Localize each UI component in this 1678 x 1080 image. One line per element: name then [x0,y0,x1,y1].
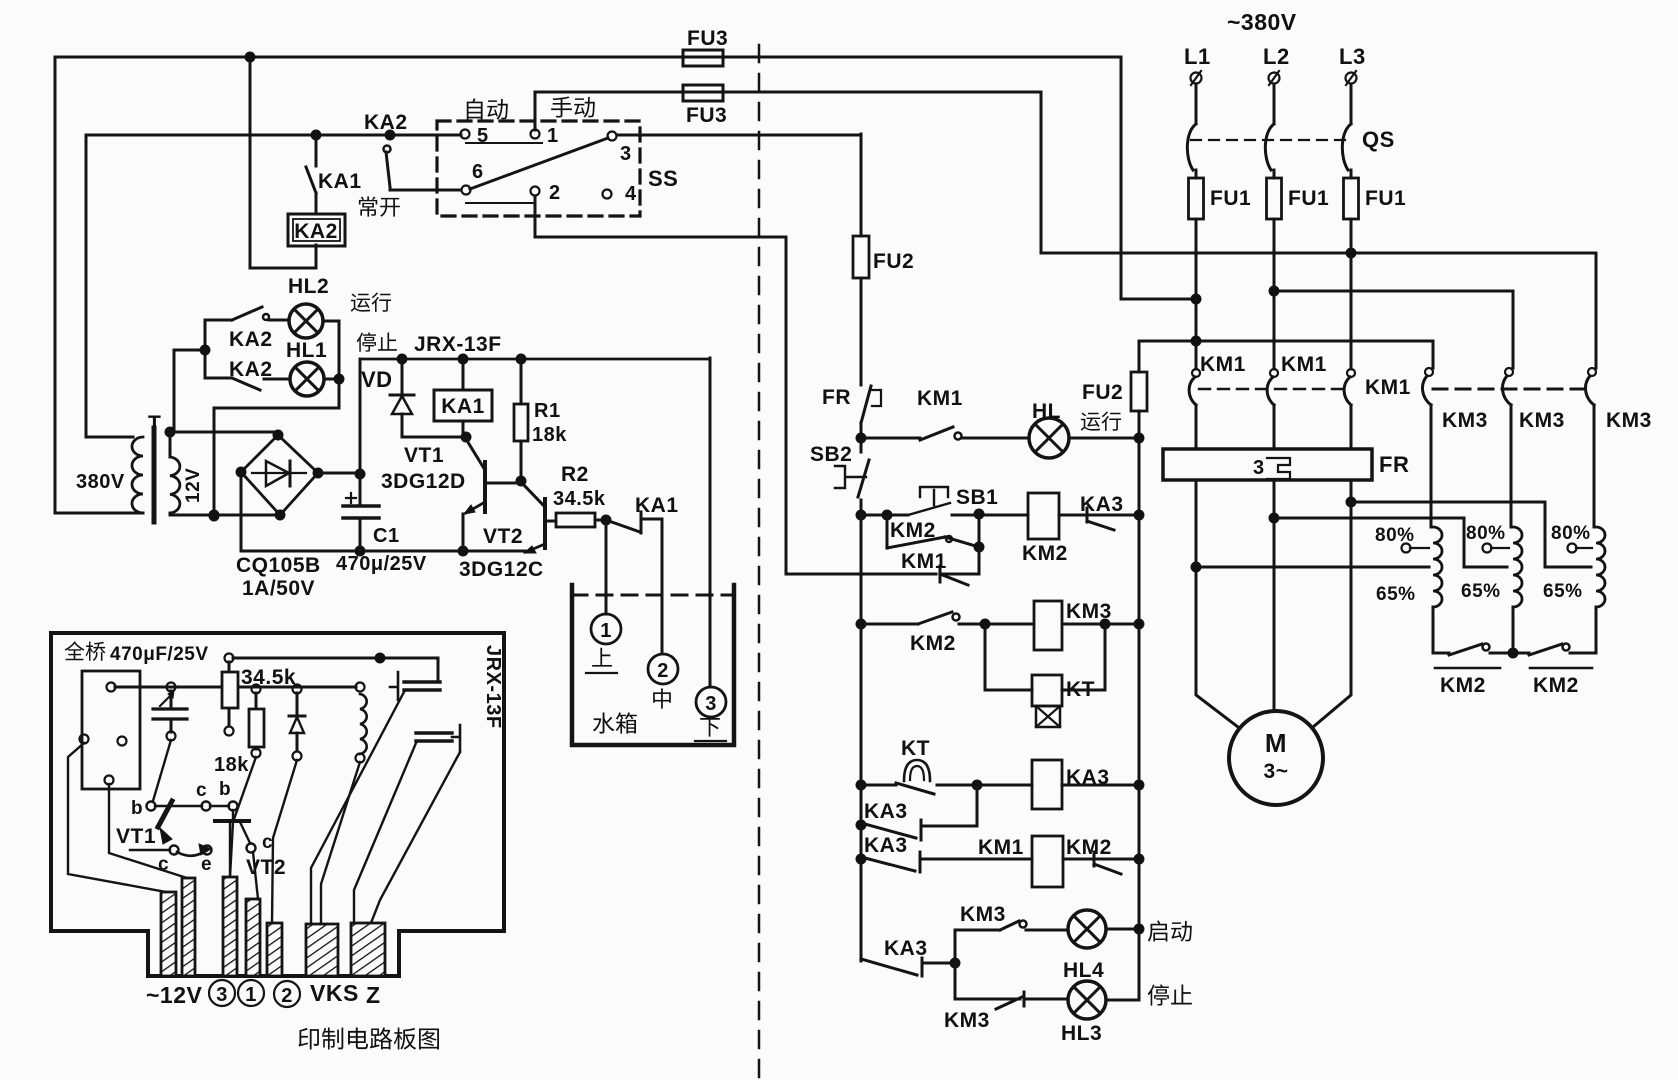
svg-text:~380V: ~380V [1227,9,1297,35]
svg-text:SB2: SB2 [810,443,852,466]
svg-text:3: 3 [1253,457,1265,479]
svg-text:3DG12C: 3DG12C [459,558,544,581]
svg-text:R2: R2 [561,463,589,486]
svg-text:JRX-13F: JRX-13F [482,645,504,729]
svg-text:KA3: KA3 [1080,493,1124,516]
svg-text:3: 3 [620,143,632,165]
svg-text:2: 2 [657,660,669,682]
svg-text:KM3: KM3 [944,1009,990,1032]
svg-text:CQ105B: CQ105B [236,554,321,577]
svg-text:18k: 18k [214,754,249,776]
svg-text:1A/50V: 1A/50V [242,577,315,600]
svg-text:VT1: VT1 [116,825,156,848]
svg-text:VD: VD [361,367,393,392]
svg-text:L2: L2 [1263,44,1290,69]
svg-text:KA2: KA2 [229,328,273,351]
svg-text:KM3: KM3 [960,903,1006,926]
svg-text:FR: FR [1379,452,1409,477]
svg-text:L3: L3 [1339,44,1366,69]
svg-text:1: 1 [600,620,612,642]
svg-text:KT: KT [901,737,930,760]
svg-text:KM2: KM2 [1066,836,1112,859]
svg-text:KM2: KM2 [910,632,956,655]
svg-text:KA2: KA2 [364,111,408,134]
svg-text:KA2: KA2 [294,220,338,243]
svg-text:SS: SS [648,166,678,191]
svg-text:VT2: VT2 [483,525,523,548]
svg-text:b: b [219,779,231,800]
svg-text:KM2: KM2 [1022,542,1068,565]
svg-text:KM3: KM3 [1519,409,1565,432]
svg-text:KA3: KA3 [864,834,908,857]
svg-text:e: e [201,854,212,875]
svg-text:b: b [131,798,143,819]
svg-text:65%: 65% [1376,584,1416,605]
svg-text:~12V: ~12V [146,982,203,1008]
svg-text:HL3: HL3 [1061,1022,1102,1045]
svg-text:KA1: KA1 [441,395,485,418]
svg-text:80%: 80% [1466,523,1506,544]
svg-text:2: 2 [281,985,293,1007]
svg-text:KM3: KM3 [1442,409,1488,432]
svg-text:3: 3 [216,984,228,1006]
svg-text:FR: FR [822,386,851,409]
svg-text:470μF/25V: 470μF/25V [110,644,209,665]
svg-text:FU1: FU1 [1365,187,1406,210]
svg-text:VKS: VKS [310,980,359,1006]
svg-text:C1: C1 [373,525,400,547]
svg-text:80%: 80% [1375,525,1415,546]
svg-text:VT2: VT2 [246,856,286,879]
svg-text:JRX-13F: JRX-13F [414,333,502,356]
svg-text:KM2: KM2 [1533,674,1579,697]
svg-text:Z: Z [366,982,381,1008]
svg-text:KM1: KM1 [1281,353,1327,376]
svg-text:HL4: HL4 [1063,959,1104,982]
svg-text:HL1: HL1 [286,339,327,362]
svg-text:KA1: KA1 [635,494,679,517]
svg-text:KM1: KM1 [978,836,1024,859]
svg-text:6: 6 [472,161,484,183]
svg-text:KM2: KM2 [890,519,936,542]
svg-text:KA1: KA1 [318,170,362,193]
svg-text:c: c [196,780,207,801]
svg-text:KA3: KA3 [864,800,908,823]
svg-text:FU3: FU3 [687,27,728,50]
svg-text:R1: R1 [534,400,561,422]
svg-text:HL2: HL2 [288,275,329,298]
svg-text:4: 4 [625,183,637,205]
svg-text:KM1: KM1 [1200,353,1246,376]
svg-text:34.5k: 34.5k [241,666,296,689]
svg-text:34.5k: 34.5k [553,488,606,510]
svg-text:3~: 3~ [1264,760,1289,783]
svg-text:SB1: SB1 [956,486,998,509]
svg-text:FU2: FU2 [873,250,914,273]
svg-text:KM1: KM1 [917,387,963,410]
svg-text:65%: 65% [1543,581,1583,602]
svg-text:FU1: FU1 [1288,187,1329,210]
svg-text:380V: 380V [76,471,125,493]
svg-text:VT1: VT1 [404,444,444,467]
svg-text:c: c [262,832,273,853]
svg-text:3DG12D: 3DG12D [381,470,466,493]
svg-text:2: 2 [549,182,561,204]
svg-text:12V: 12V [183,468,204,503]
svg-text:KM2: KM2 [1440,674,1486,697]
svg-text:KA3: KA3 [884,937,928,960]
svg-text:FU3: FU3 [686,104,727,127]
svg-text:KA2: KA2 [229,358,273,381]
svg-text:FU1: FU1 [1210,187,1251,210]
svg-text:KM1: KM1 [1365,376,1411,399]
svg-text:65%: 65% [1461,581,1501,602]
svg-text:80%: 80% [1551,523,1591,544]
svg-text:HL: HL [1032,400,1061,423]
svg-text:1: 1 [245,984,257,1006]
svg-text:KM3: KM3 [1606,409,1652,432]
svg-text:KM1: KM1 [901,550,947,573]
svg-text:3: 3 [705,693,717,715]
svg-text:M: M [1265,728,1287,758]
svg-text:18k: 18k [532,424,567,446]
svg-text:L1: L1 [1184,44,1211,69]
svg-text:1: 1 [547,125,559,147]
svg-text:FU2: FU2 [1082,381,1123,404]
svg-text:470μ/25V: 470μ/25V [336,553,427,575]
svg-text:QS: QS [1362,127,1395,152]
